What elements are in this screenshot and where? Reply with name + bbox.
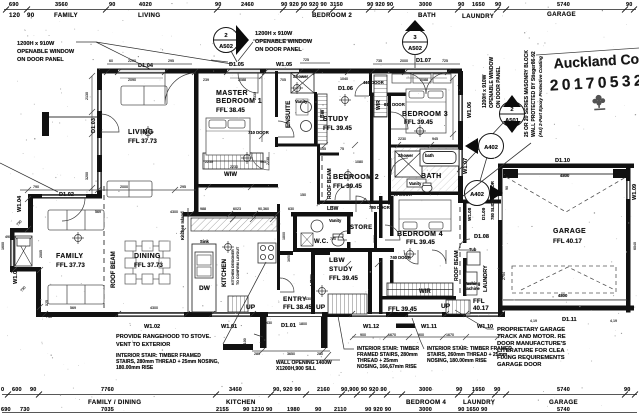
window lines W1.01 xyxy=(212,313,250,315)
svg-text:BEDROOM 3: BEDROOM 3 xyxy=(402,111,448,118)
svg-text:2090: 2090 xyxy=(128,78,136,82)
svg-text:FFL 38.45: FFL 38.45 xyxy=(216,107,245,114)
svg-text:2005: 2005 xyxy=(39,250,43,258)
vertical dim strip x=260 (master/ensuite) xyxy=(259,73,265,142)
svg-text:Kitchen Island: Kitchen Island xyxy=(180,211,185,240)
svg-text:NOSING, 166,67mm RISE: NOSING, 166,67mm RISE xyxy=(357,364,417,370)
svg-text:4020: 4020 xyxy=(139,2,152,8)
svg-text:Vanity: Vanity xyxy=(409,181,422,186)
door arc store xyxy=(356,196,372,212)
svg-text:2330: 2330 xyxy=(253,92,257,100)
window W1.11 xyxy=(408,313,442,316)
marker A502 #2 xyxy=(403,20,428,68)
svg-text:LAUNDRY: LAUNDRY xyxy=(462,13,495,20)
svg-text:2200: 2200 xyxy=(128,59,136,63)
svg-text:5740: 5740 xyxy=(557,387,570,393)
svg-text:FAMILY: FAMILY xyxy=(54,12,78,19)
svg-text:KITCHEN: KITCHEN xyxy=(221,259,228,287)
svg-text:900: 900 xyxy=(360,333,366,337)
svg-text:569: 569 xyxy=(95,210,101,214)
vertical room/text labels xyxy=(111,100,489,292)
svg-text:1200H x 910W: 1200H x 910W xyxy=(482,74,488,108)
window lines W1.10 xyxy=(466,313,498,315)
svg-text:3560: 3560 xyxy=(55,2,68,8)
note openable window top-middle xyxy=(255,31,313,53)
svg-text:DW: DW xyxy=(199,285,211,292)
svg-text:A502: A502 xyxy=(219,44,233,50)
bath bottom wall xyxy=(388,192,463,196)
svg-text:690: 690 xyxy=(9,2,19,8)
svg-text:2000: 2000 xyxy=(400,59,408,63)
window pane thin lines in openings xyxy=(11,70,498,316)
door arc entry inner xyxy=(280,278,294,292)
svg-text:295: 295 xyxy=(168,59,174,63)
leader lines from top-left note xyxy=(76,42,232,69)
svg-text:40.17: 40.17 xyxy=(473,305,489,312)
garage door jamb right xyxy=(613,169,627,178)
svg-text:LITERATURE FOR CLEA: LITERATURE FOR CLEA xyxy=(497,348,565,354)
roof beam family/dining xyxy=(103,186,105,311)
ticks under bottom wall second row xyxy=(350,334,501,340)
leader from top-middle note xyxy=(253,39,310,41)
svg-text:DINING: DINING xyxy=(134,253,161,260)
svg-text:W1.11: W1.11 xyxy=(421,324,437,330)
svg-text:2088: 2088 xyxy=(420,78,428,82)
left exterior wall (living) xyxy=(97,71,102,198)
window lines D1.04 xyxy=(118,69,165,71)
svg-text:3650: 3650 xyxy=(287,254,291,262)
svg-text:725: 725 xyxy=(303,58,309,62)
svg-text:W1.04: W1.04 xyxy=(17,195,23,212)
svg-text:OPENABLE WINDOW: OPENABLE WINDOW xyxy=(17,49,75,55)
svg-text:FIXING REQUIREMENTS: FIXING REQUIREMENTS xyxy=(497,355,565,361)
top band room labels xyxy=(9,11,576,20)
svg-text:2704: 2704 xyxy=(502,272,506,280)
svg-text:D1.06: D1.06 xyxy=(338,86,353,92)
family niche fixture xyxy=(15,236,32,266)
svg-text:UP: UP xyxy=(246,304,256,311)
window W1.01 xyxy=(212,313,250,316)
svg-text:295: 295 xyxy=(180,185,186,189)
ensuite basin xyxy=(301,102,312,113)
garage bottom wall xyxy=(498,306,634,311)
window lines D1.05 xyxy=(227,69,260,71)
svg-text:WIW: WIW xyxy=(224,172,237,178)
svg-text:6040: 6040 xyxy=(633,242,637,250)
svg-text:90: 90 xyxy=(109,2,116,8)
svg-text:1670: 1670 xyxy=(446,333,454,337)
bedroom4 left wall xyxy=(379,196,383,238)
top dimension line xyxy=(3,2,637,20)
niche left wall W1.03 xyxy=(10,228,15,272)
svg-text:730: 730 xyxy=(20,407,30,413)
svg-text:740 DOOR: 740 DOOR xyxy=(390,255,411,260)
svg-text:Vanity: Vanity xyxy=(329,218,342,223)
svg-text:MASTER: MASTER xyxy=(216,90,248,97)
entry threshold lines D1.01 xyxy=(268,313,322,315)
svg-text:1670: 1670 xyxy=(388,333,396,337)
dim row inside top wall xyxy=(128,77,428,82)
svg-text:690: 690 xyxy=(1,407,11,413)
svg-text:D1.05: D1.05 xyxy=(229,62,244,68)
living couch bottom xyxy=(107,181,152,197)
ensuite/stair bottom wall xyxy=(275,144,320,147)
svg-text:4800: 4800 xyxy=(560,173,570,178)
bedroom4 bed xyxy=(399,200,451,231)
dim row above top wall xyxy=(107,60,460,64)
door arc bath xyxy=(391,158,408,175)
svg-text:3000: 3000 xyxy=(419,2,432,8)
opening D1.07 xyxy=(405,69,447,72)
store right wall xyxy=(374,212,377,252)
window lines W1.03 xyxy=(10,240,12,266)
bedroom3 bed xyxy=(406,89,446,133)
note interior stair middle xyxy=(357,346,420,370)
svg-text:FFL 40.17: FFL 40.17 xyxy=(553,238,582,245)
LBW stair strip xyxy=(318,94,328,144)
svg-text:D1.08: D1.08 xyxy=(474,234,489,240)
svg-text:Machine: Machine xyxy=(463,286,480,291)
svg-text:LIVING: LIVING xyxy=(138,12,160,19)
svg-text:FFL 39.45: FFL 39.45 xyxy=(406,239,435,246)
svg-text:410 DOOR: 410 DOOR xyxy=(363,80,384,85)
dining table xyxy=(125,241,170,284)
svg-text:BATH: BATH xyxy=(421,173,442,180)
svg-text:90: 90 xyxy=(458,2,465,8)
svg-text:KITCHEN DESIGNER: KITCHEN DESIGNER xyxy=(231,249,235,285)
kitchen right wall xyxy=(277,204,280,290)
svg-text:3000: 3000 xyxy=(419,407,432,413)
svg-text:4800: 4800 xyxy=(558,293,568,298)
svg-text:1650: 1650 xyxy=(472,387,485,393)
svg-text:90: 90 xyxy=(626,2,633,8)
svg-text:2110: 2110 xyxy=(334,407,347,413)
window W1.02 xyxy=(118,313,184,316)
svg-text:X1200H,900 SILL: X1200H,900 SILL xyxy=(276,366,316,372)
marker A402 #1 xyxy=(465,134,504,159)
svg-text:GARAGE: GARAGE xyxy=(549,399,578,406)
svg-text:FFL 39.45: FFL 39.45 xyxy=(333,183,362,190)
family sofa bottom xyxy=(48,285,104,304)
kitchen top wall xyxy=(183,212,280,217)
right exterior wall (bed3/bath) xyxy=(458,71,463,203)
svg-text:25 OR 20 SERIES MASONRY BLOCK: 25 OR 20 SERIES MASONRY BLOCK xyxy=(524,50,530,137)
top dimension numbers xyxy=(9,2,633,8)
svg-text:2230: 2230 xyxy=(398,137,406,141)
laundry left wall xyxy=(463,203,467,243)
svg-text:90 1210 90: 90 1210 90 xyxy=(243,407,273,413)
kitchen stairs UP xyxy=(228,296,248,312)
hall stairs UP xyxy=(328,294,367,314)
niche bottom wall xyxy=(10,267,41,272)
svg-text:STUDY: STUDY xyxy=(329,266,353,273)
window lines W1.05 xyxy=(266,69,299,71)
door arc wc xyxy=(338,231,347,240)
window lines W1.02 xyxy=(118,313,184,315)
roof beam bedroom4 xyxy=(459,207,461,296)
svg-text:2130: 2130 xyxy=(85,92,89,100)
crosshair symbols xyxy=(72,82,426,297)
ensuite shower xyxy=(291,73,314,93)
window W1.12 xyxy=(352,313,386,316)
ensuite toilet xyxy=(301,121,312,132)
svg-text:Tub: Tub xyxy=(469,247,477,252)
robes under bedroom3 bed xyxy=(392,74,451,83)
svg-text:FFL 37.73: FFL 37.73 xyxy=(134,262,163,269)
svg-text:ROOF BEAM: ROOF BEAM xyxy=(454,250,460,281)
svg-text:430: 430 xyxy=(266,321,272,325)
svg-text:905: 905 xyxy=(260,160,266,164)
svg-text:LBW: LBW xyxy=(329,257,345,264)
marker A502 #1 xyxy=(214,25,250,62)
svg-text:2400: 2400 xyxy=(463,222,467,230)
window lines W1.12 xyxy=(352,313,386,315)
laundry tub xyxy=(467,252,480,265)
svg-text:VENT TO EXTERIOR: VENT TO EXTERIOR xyxy=(116,342,170,348)
svg-text:GARAGE DOOR: GARAGE DOOR xyxy=(497,362,542,368)
vertical dim strip right inner xyxy=(450,75,456,140)
svg-text:945: 945 xyxy=(432,137,438,141)
svg-text:Sink: Sink xyxy=(200,239,210,244)
svg-text:BEDROOM 4: BEDROOM 4 xyxy=(397,231,443,238)
roof beam bedroom2 xyxy=(321,156,323,200)
wall living|master bed1 xyxy=(194,71,199,212)
bottom exterior wall xyxy=(36,312,505,317)
kitchen wall ticks xyxy=(188,211,280,217)
svg-text:LAUNDRY: LAUNDRY xyxy=(463,399,496,406)
hall right wall xyxy=(368,252,372,314)
svg-text:WIR: WIR xyxy=(419,289,431,295)
svg-text:OPENABLE WINDOW: OPENABLE WINDOW xyxy=(489,57,495,108)
svg-text:630: 630 xyxy=(288,207,294,211)
svg-text:A502: A502 xyxy=(408,46,422,52)
leader to D1.02 xyxy=(0,163,58,192)
svg-text:W1.09: W1.09 xyxy=(632,184,638,200)
washing machine xyxy=(466,272,477,283)
svg-text:90: 90 xyxy=(30,387,37,393)
leader masonry note xyxy=(463,143,531,196)
svg-text:90: 90 xyxy=(505,186,509,190)
door arc bedroom4 double doors xyxy=(404,250,446,264)
svg-text:120: 120 xyxy=(9,12,20,19)
svg-text:FFL 38.45: FFL 38.45 xyxy=(283,304,312,311)
svg-text:KITCHEN: KITCHEN xyxy=(226,399,256,406)
family bay left wall upper xyxy=(28,194,33,232)
svg-text:1600: 1600 xyxy=(1,242,5,250)
svg-text:2155: 2155 xyxy=(216,407,229,413)
svg-text:1080: 1080 xyxy=(355,160,363,164)
svg-text:710 DOOR: 710 DOOR xyxy=(391,192,412,197)
top exterior wall xyxy=(97,69,462,74)
svg-text:ON DOOR PANEL: ON DOOR PANEL xyxy=(255,47,302,53)
study right wall xyxy=(369,71,372,96)
svg-text:BATH: BATH xyxy=(418,12,436,19)
entry door D1.01 opening xyxy=(268,313,322,316)
bottom dimension line row 1 xyxy=(2,394,637,396)
svg-text:STUDY: STUDY xyxy=(323,116,349,123)
living sofa top xyxy=(121,86,167,105)
svg-text:90 920 90: 90 920 90 xyxy=(365,407,391,413)
ticks on top wall xyxy=(104,69,451,75)
svg-text:2230: 2230 xyxy=(230,165,238,169)
svg-text:DOOR MANUFACTURE'S: DOOR MANUFACTURE'S xyxy=(497,341,566,347)
svg-text:ON DOOR PANEL: ON DOOR PANEL xyxy=(17,57,64,63)
svg-text:1200H x 910W: 1200H x 910W xyxy=(17,41,55,47)
svg-text:1040: 1040 xyxy=(340,77,348,81)
door arc D1.03 left wall xyxy=(101,114,119,132)
svg-text:Vanity: Vanity xyxy=(295,99,308,104)
svg-text:D1.07: D1.07 xyxy=(416,58,431,64)
wc shower box xyxy=(301,233,313,246)
note openable window top-left xyxy=(17,41,75,63)
entry wall stub xyxy=(280,251,293,255)
svg-text:150: 150 xyxy=(300,193,306,197)
bottom numbers row 1 xyxy=(1,387,631,393)
stair strip left wall xyxy=(314,92,317,146)
svg-text:4300: 4300 xyxy=(150,306,158,310)
door arc D1.05 master xyxy=(238,73,258,93)
note garage door xyxy=(497,327,566,368)
extra left-side tick numbers xyxy=(5,204,52,319)
svg-text:790: 790 xyxy=(33,185,39,189)
svg-text:7760: 7760 xyxy=(101,387,114,393)
svg-text:FAMILY / DINING: FAMILY / DINING xyxy=(88,399,141,406)
dim line left of family (D1.02 row) xyxy=(20,187,196,193)
window lines W1.06 xyxy=(458,95,460,121)
svg-text:FFL 39.45: FFL 39.45 xyxy=(329,275,358,282)
svg-text:TRACK AND MOTOR. RE: TRACK AND MOTOR. RE xyxy=(497,334,566,340)
window W1.05 xyxy=(266,69,299,72)
svg-text:LBW: LBW xyxy=(327,206,339,212)
garage door jamb left xyxy=(503,169,518,178)
garage door head line xyxy=(505,174,626,175)
door arc study D1.06 xyxy=(355,82,369,96)
bath floor hatch xyxy=(392,148,458,191)
marker A501 xyxy=(457,95,525,172)
stair note black bar xyxy=(223,344,253,350)
svg-text:1100: 1100 xyxy=(243,338,247,346)
svg-text:0: 0 xyxy=(1,387,4,393)
svg-text:FFL 37.73: FFL 37.73 xyxy=(128,138,157,145)
svg-text:FFL 37.73: FFL 37.73 xyxy=(56,262,85,269)
window lines W1.04 xyxy=(42,195,86,197)
svg-text:FFL 39.45: FFL 39.45 xyxy=(404,119,433,126)
svg-text:5740: 5740 xyxy=(557,407,570,413)
study top-right jog wall xyxy=(369,93,415,97)
svg-text:WIR: WIR xyxy=(376,100,382,110)
svg-text:7035: 7035 xyxy=(101,407,114,413)
svg-text:705: 705 xyxy=(280,78,286,82)
opening D1.04 xyxy=(118,69,165,72)
svg-text:WALL PROTECTED BY Stieger86-92: WALL PROTECTED BY Stieger86-92 xyxy=(531,51,537,137)
svg-text:3650: 3650 xyxy=(287,352,295,356)
svg-text:STORE: STORE xyxy=(350,225,373,231)
svg-text:D1.10: D1.10 xyxy=(555,158,570,164)
leaders to stair notes xyxy=(338,316,424,349)
svg-text:90: 90 xyxy=(215,2,222,8)
svg-text:90 1650 90: 90 1650 90 xyxy=(458,407,488,413)
svg-text:90 920 90: 90 920 90 xyxy=(367,2,393,8)
corridor left wall xyxy=(370,96,374,204)
svg-text:BEDROOM 2: BEDROOM 2 xyxy=(333,174,379,181)
kitchen/dining divide line xyxy=(187,208,189,312)
svg-text:75: 75 xyxy=(340,147,344,151)
bed3|bath wall xyxy=(391,145,461,148)
svg-text:2160: 2160 xyxy=(317,387,330,393)
svg-text:ROOF BEAM: ROOF BEAM xyxy=(327,168,333,199)
black bar between W1.12/W1.11 xyxy=(396,324,415,329)
svg-text:W1.02: W1.02 xyxy=(144,324,160,330)
svg-text:6023: 6023 xyxy=(233,207,241,211)
stamp paper edge line xyxy=(536,48,639,55)
garage left wall xyxy=(498,164,503,313)
WIW wardrobe treads master xyxy=(203,153,263,169)
lower left exterior wall xyxy=(36,267,41,317)
door arc bedroom2 xyxy=(335,185,350,200)
svg-text:90, 920 90: 90, 920 90 xyxy=(273,387,301,393)
door arc dining/hall xyxy=(251,152,269,170)
note interior stair left xyxy=(116,353,219,371)
note masonry block vertical xyxy=(524,50,543,137)
svg-text:180.00mm RISE: 180.00mm RISE xyxy=(116,365,154,371)
svg-text:Shower: Shower xyxy=(398,153,413,158)
svg-text:90: 90 xyxy=(456,387,463,393)
entry porch pier left xyxy=(260,317,267,348)
svg-text:1650: 1650 xyxy=(472,2,485,8)
dim line under porch xyxy=(252,348,340,360)
window W1.07 xyxy=(459,150,462,176)
svg-text:1200H x 910W: 1200H x 910W xyxy=(255,31,293,37)
entry porch pier right xyxy=(321,317,328,348)
double door arcs D1.07 xyxy=(405,73,447,94)
garage right wall xyxy=(626,164,631,313)
window lines W1.07 xyxy=(458,150,460,176)
svg-text:720: 720 xyxy=(330,237,336,241)
svg-text:810 DOOR: 810 DOOR xyxy=(384,102,405,107)
svg-text:4,19: 4,19 xyxy=(610,319,617,323)
door D1.03 opening xyxy=(98,90,101,111)
door arc D1.04 living xyxy=(165,73,196,104)
svg-text:600: 600 xyxy=(12,387,22,393)
marker A402 #2 xyxy=(465,157,504,206)
niche top wall xyxy=(10,228,33,233)
master bed1 xyxy=(206,118,250,155)
door arc bedroom3 xyxy=(391,112,408,129)
garage top wall xyxy=(498,164,634,169)
svg-text:ON DOOR PANEL: ON DOOR PANEL xyxy=(496,66,502,108)
laundry top wall xyxy=(463,200,501,204)
door arc D1.02 family bay xyxy=(62,198,85,221)
leader rangehood to stove xyxy=(223,262,266,344)
bedroom2 left wall xyxy=(317,144,320,205)
svg-text:W1.01: W1.01 xyxy=(221,324,237,330)
door arc laundry xyxy=(459,239,470,250)
svg-text:3200: 3200 xyxy=(85,172,89,180)
garage door dashed swing upper xyxy=(506,177,626,212)
bath vanity xyxy=(407,179,426,187)
svg-text:ENSUITE: ENSUITE xyxy=(285,101,292,128)
stove cooktop xyxy=(258,243,276,263)
corridor wall xyxy=(388,93,391,205)
scattered small ticks interior xyxy=(180,142,434,267)
svg-text:60: 60 xyxy=(109,59,113,63)
svg-text:D1.09: D1.09 xyxy=(481,207,486,220)
svg-text:3460: 3460 xyxy=(229,387,242,393)
svg-text:W1.06: W1.06 xyxy=(467,102,473,118)
window lines D1.03 xyxy=(97,90,99,111)
svg-text:W1.05: W1.05 xyxy=(276,62,292,68)
window lines W1.11 xyxy=(408,313,442,315)
